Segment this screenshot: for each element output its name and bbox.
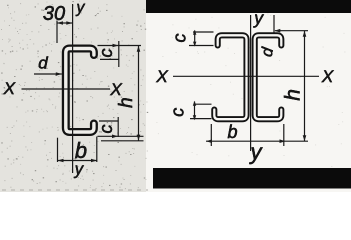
- svg-text:X: X: [3, 79, 16, 98]
- svg-text:c: c: [96, 125, 116, 134]
- svg-text:b: b: [75, 138, 87, 163]
- svg-text:y: y: [253, 8, 264, 28]
- svg-text:c: c: [96, 49, 116, 58]
- svg-text:c: c: [170, 34, 190, 43]
- svg-text:c: c: [168, 108, 188, 117]
- svg-text:X: X: [321, 67, 334, 86]
- svg-text:h: h: [116, 97, 137, 108]
- svg-text:h: h: [282, 89, 305, 101]
- svg-text:y: y: [249, 139, 264, 164]
- svg-text:d: d: [38, 54, 48, 73]
- svg-text:30: 30: [43, 3, 65, 25]
- svg-text:X: X: [155, 67, 168, 86]
- svg-text:y: y: [76, 0, 86, 16]
- svg-text:b: b: [227, 122, 237, 142]
- svg-text:X: X: [109, 80, 122, 99]
